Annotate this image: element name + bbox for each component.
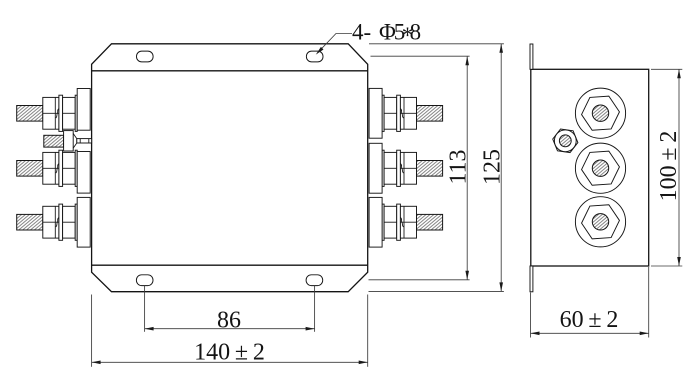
left line terminal stud/nut stack 2	[17, 150, 77, 186]
svg-text:140 ± 2: 140 ± 2	[194, 339, 265, 365]
dimension 125 (flange height, vertical)	[369, 43, 504, 45]
leader note 4-Φ5*8 for mounting holes	[317, 34, 352, 54]
svg-text:60 ± 2: 60 ± 2	[560, 307, 619, 333]
side view terminal nut 1 (circle + hex + hatched stud)	[575, 88, 625, 138]
ground stud nut	[64, 131, 74, 151]
right terminal insulator base 1	[369, 88, 382, 138]
side view bottom flange tab	[530, 266, 533, 292]
dimension 86 (hole spacing, horizontal)	[144, 286, 146, 332]
svg-text:4-: 4-	[352, 20, 371, 45]
left terminal insulator base 1	[77, 89, 90, 131]
dimension 60±2 (side width)	[530, 293, 532, 338]
ground stud bar into body	[77, 139, 92, 143]
left line terminal stud/nut stack 3	[17, 204, 77, 240]
right line terminal stud/nut stack 1	[382, 95, 443, 131]
dimension 140±2 (body width)	[91, 295, 93, 367]
top flange / body joint line	[92, 70, 368, 72]
left line terminal stud/nut stack 1	[17, 95, 77, 131]
ground stud cone transition	[73, 134, 77, 149]
dimension 113 (hole spacing, vertical)	[371, 55, 470, 57]
mounting slot hole bottom-left	[136, 275, 153, 286]
side view ground terminal (hex nut + stud)	[553, 129, 578, 153]
mounting slot hole top-left	[137, 51, 154, 62]
bottom flange / body joint line	[92, 264, 368, 266]
filter body outline with top and bottom mounting flanges	[92, 44, 368, 292]
side view top flange tab	[530, 44, 533, 69]
mounting slot hole top-right	[306, 51, 323, 62]
side view body rectangle	[531, 69, 649, 266]
left terminal insulator base 2	[77, 152, 90, 194]
svg-text:100 ± 2: 100 ± 2	[656, 131, 682, 202]
ground stud (small, hatched)	[44, 135, 64, 147]
mounting slot hole bottom-right	[306, 275, 323, 286]
svg-text:8: 8	[410, 20, 422, 45]
right terminal insulator base 2	[369, 143, 382, 193]
dimension 100±2 (side height, vertical)	[651, 68, 682, 70]
side view terminal nut 2 (circle + hex + hatched stud)	[575, 143, 625, 193]
side view terminal nut 3 (circle + hex + hatched stud)	[575, 197, 625, 247]
svg-text:86: 86	[217, 307, 241, 333]
right line terminal stud/nut stack 3	[382, 204, 443, 240]
svg-text:113: 113	[445, 149, 471, 184]
right line terminal stud/nut stack 2	[382, 150, 443, 186]
left terminal insulator base 3	[77, 197, 90, 247]
svg-text:125: 125	[479, 149, 505, 185]
right terminal insulator base 3	[369, 197, 382, 247]
